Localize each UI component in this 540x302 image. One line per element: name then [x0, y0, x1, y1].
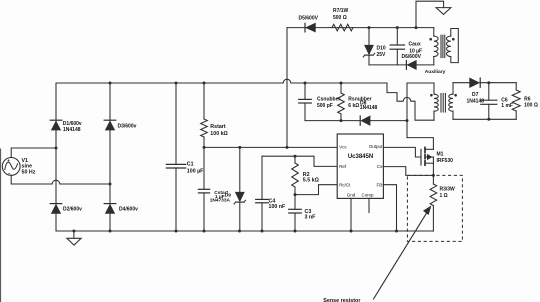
capacitor C4	[256, 198, 286, 210]
diode D6	[406, 61, 416, 70]
svg-text:1N4148: 1N4148	[467, 98, 485, 104]
wire Gnd pin to rail	[350, 198, 352, 231]
wire secondary bottom line	[453, 118, 516, 120]
junction out bottom / C6	[487, 118, 490, 121]
wire bridge left leg	[55, 83, 57, 231]
diode D7	[467, 78, 485, 104]
wire C6 leg	[488, 83, 490, 120]
wire secondary top line	[453, 82, 516, 84]
svg-text:D7: D7	[472, 92, 479, 98]
wire D9 leg	[239, 147, 241, 231]
wire clamp column	[406, 83, 408, 138]
wire snubber bottom line	[305, 120, 407, 122]
wire Rsnubber leg	[340, 83, 342, 121]
svg-text:5.5 kΩ: 5.5 kΩ	[303, 178, 320, 184]
svg-text:Gnd: Gnd	[347, 192, 356, 197]
wire R3 bottom leg	[432, 206, 434, 232]
wire Output pin to gate	[383, 147, 421, 157]
wire R2 bottom to C3	[294, 187, 296, 209]
annotation arrow to sense resistor	[374, 206, 431, 299]
svg-text:D6/600V: D6/600V	[402, 54, 422, 60]
capacitor C6	[481, 98, 513, 109]
svg-text:Uc3845N: Uc3845N	[348, 154, 373, 160]
resistor R6	[512, 90, 538, 111]
wire top HV rail (hop over Vcc feed column)	[56, 79, 387, 83]
wire bridge right leg	[109, 83, 111, 231]
junction gnd rail / IC Gnd pin	[350, 230, 353, 233]
wire Ref line with jog	[262, 156, 338, 166]
svg-text:Auxiliary: Auxiliary	[425, 69, 446, 75]
sense resistor dashed box	[407, 175, 462, 241]
junction top rail / C1	[175, 82, 178, 85]
capacitor Caux	[390, 42, 422, 55]
node Vcc-rail left junction	[203, 146, 206, 149]
wire primary top link	[407, 83, 434, 94]
capacitor C1	[166, 162, 204, 175]
junction gnd rail / Cstart	[203, 230, 206, 233]
transformer T1 secondary winding	[449, 83, 453, 120]
ground (main)	[67, 230, 81, 246]
svg-text:1N4148: 1N4148	[360, 105, 378, 111]
transformer T2 phase dots	[429, 38, 454, 41]
svg-text:1 Ω: 1 Ω	[440, 193, 448, 199]
junction gnd rail / C4	[261, 230, 264, 233]
label Sense resistor	[323, 298, 361, 302]
junction aux line / D10	[368, 26, 371, 29]
junction Vcc / aux feed	[286, 146, 289, 149]
wire R2 top stub	[294, 156, 296, 163]
junction snubber	[340, 119, 343, 122]
label D6	[402, 54, 422, 60]
wire C4 leg	[261, 156, 263, 231]
diode D1	[50, 120, 82, 133]
diode D2	[50, 204, 82, 214]
svg-text:1N4733A: 1N4733A	[210, 198, 231, 204]
svg-text:Ref: Ref	[339, 164, 347, 169]
svg-text:Comp: Comp	[361, 192, 374, 197]
svg-text:C1: C1	[187, 162, 194, 168]
wire Comp pin stub	[368, 198, 370, 212]
node RcCt junction	[294, 193, 297, 196]
resistor R2	[292, 163, 320, 187]
junction gnd rail / D9	[238, 230, 241, 233]
diode D5	[299, 15, 319, 32]
zener diode D9	[234, 192, 246, 204]
resistor Rstart	[201, 119, 229, 137]
wire R6 loop	[515, 83, 517, 120]
svg-text:R3/3W: R3/3W	[440, 187, 456, 193]
wire C1 leg	[175, 83, 177, 231]
svg-text:D3/600v: D3/600v	[118, 124, 137, 130]
wire Rstart leg	[203, 83, 205, 147]
wire bottom ground rail	[56, 230, 433, 232]
svg-text:+: +	[7, 158, 10, 163]
svg-text:Caux: Caux	[409, 42, 421, 48]
node A junction	[55, 147, 58, 150]
wire aux top line	[287, 27, 434, 29]
transformer T1 core	[441, 94, 445, 113]
zener diode D10	[363, 45, 386, 58]
wire HV rail step to primary bottom	[387, 83, 434, 120]
svg-text:R7/1W: R7/1W	[333, 8, 349, 14]
svg-text:FB: FB	[377, 182, 383, 187]
junction top rail / Rsnubber	[340, 82, 343, 85]
wire D10 leg	[368, 28, 370, 65]
svg-text:Vcc: Vcc	[339, 144, 347, 149]
wire aux feed column	[286, 28, 288, 148]
svg-text:Csnubber: Csnubber	[317, 97, 340, 103]
svg-text:500 pF: 500 pF	[317, 103, 333, 109]
wire Cstart leg	[203, 147, 205, 231]
op-amp U1 Uc3845N	[337, 134, 383, 198]
junction gnd rail / FB return	[395, 230, 398, 233]
junction gnd rail / C1	[175, 230, 178, 233]
junction Vcc / D9 leg	[238, 146, 241, 149]
wire R3 top leg	[432, 175, 434, 184]
ground (auxiliary)	[436, 8, 451, 15]
junction out top / C6	[487, 81, 490, 84]
diode D4	[104, 204, 138, 214]
capacitor Cstart	[198, 189, 228, 196]
wire aux bottom line	[369, 64, 434, 66]
transistor M1	[421, 147, 453, 165]
label Auxiliary	[425, 69, 446, 75]
junction top rail / Rstart	[203, 82, 206, 85]
diode D3	[104, 120, 136, 130]
wire RcCt pin line	[295, 185, 338, 195]
svg-text:50 Hz: 50 Hz	[22, 169, 36, 175]
wire (cropped left edge trace)	[0, 149, 2, 302]
diode D8	[360, 100, 378, 125]
svg-text:3 nF: 3 nF	[305, 214, 317, 220]
wire Caux leg	[396, 28, 398, 65]
svg-text:D9: D9	[225, 193, 231, 199]
resistor R3	[430, 184, 455, 206]
source V1	[2, 158, 35, 176]
transformer T2 secondary winding	[447, 29, 459, 63]
junction aux line / Caux	[396, 26, 399, 29]
svg-text:Sense resistor: Sense resistor	[323, 298, 361, 302]
junction top rail / D3 leg	[109, 82, 112, 85]
svg-text:1N4148: 1N4148	[63, 127, 81, 133]
wire V1 minus to bridge node B (hop over left leg)	[11, 175, 110, 184]
svg-text:Rstart: Rstart	[210, 124, 226, 130]
junction Ref / R2 top	[294, 155, 297, 158]
junction top rail / Csnubber	[304, 82, 307, 85]
svg-text:100 µF: 100 µF	[187, 169, 204, 175]
svg-text:D5/600V: D5/600V	[299, 15, 319, 21]
svg-text:Cs: Cs	[377, 164, 383, 169]
resistor Rsnubber	[338, 93, 372, 114]
wire Cs pin to sense node	[383, 167, 433, 176]
capacitor Csnubber	[299, 97, 341, 109]
junction aux line / gnd column	[415, 26, 418, 29]
node sense junction	[432, 174, 435, 177]
wire source to sense node	[432, 163, 434, 175]
svg-text:D2/600v: D2/600v	[63, 207, 82, 213]
junction gnd rail / D4 leg	[109, 230, 112, 233]
wire V1 plus to bridge node A	[11, 148, 56, 158]
label Cstart value	[210, 193, 232, 204]
svg-text:D4/600v: D4/600v	[119, 207, 138, 213]
wire aux ground link	[416, 1, 444, 27]
transformer T1 phase dots	[430, 94, 457, 97]
svg-text:D10: D10	[377, 45, 386, 51]
svg-text:Output: Output	[369, 144, 383, 149]
svg-text:100 kΩ: 100 kΩ	[210, 131, 228, 137]
svg-text:6 kΩ: 6 kΩ	[348, 103, 359, 109]
node clamp junction	[406, 119, 409, 122]
resistor R7	[332, 8, 353, 31]
wire Csnubber leg	[304, 83, 306, 121]
svg-text:25V: 25V	[377, 52, 387, 58]
svg-text:1 mF: 1 mF	[501, 103, 513, 109]
node B junction	[109, 183, 112, 186]
transformer T1 primary winding	[434, 94, 438, 120]
svg-text:Rc/Ct: Rc/Ct	[339, 182, 351, 187]
svg-text:IRF530: IRF530	[437, 158, 454, 164]
svg-text:100 nF: 100 nF	[269, 204, 287, 210]
wire C3 bottom leg	[294, 213, 296, 231]
wire Vcc line	[204, 146, 337, 148]
svg-text:100 Ω: 100 Ω	[524, 102, 538, 108]
junction gnd rail / C3	[294, 230, 297, 233]
wire drain feed	[407, 138, 433, 150]
transformer T2 primary winding	[434, 28, 438, 65]
wire FB pin to ground	[383, 185, 397, 231]
svg-text:−: −	[8, 171, 11, 176]
svg-text:500 Ω: 500 Ω	[333, 15, 347, 21]
svg-text:M1: M1	[437, 152, 444, 158]
transformer T2 core	[441, 35, 445, 57]
capacitor C3	[289, 209, 316, 221]
